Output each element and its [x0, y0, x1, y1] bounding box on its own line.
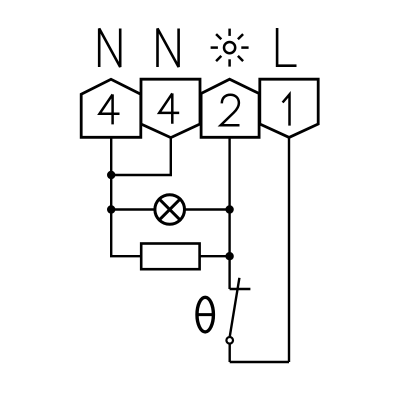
- wire: lamp row: [111, 208, 229, 210]
- switch S1 pivot circle: [226, 337, 233, 344]
- wire: pivot down: [228, 344, 230, 362]
- terminal 2 (apex-up pentagon): [201, 79, 259, 137]
- pin label 4 (terminal 4a): [100, 94, 120, 124]
- terminal 1 (apex-down pentagon): [260, 79, 318, 137]
- wire: terminal 4a down the left rail to resistor: [111, 137, 141, 256]
- resistor R1: [141, 244, 199, 270]
- label L (net L over terminal 1): [277, 28, 296, 66]
- terminal 4a (apex-up pentagon): [81, 79, 141, 137]
- switch S1 blade: [230, 278, 240, 337]
- terminal 4b (apex-down pentagon): [141, 79, 200, 137]
- wire: terminal 4b down then left to node A: [111, 138, 171, 175]
- pin label 4 (terminal 4b): [159, 93, 179, 123]
- pin label 2 (terminal 2): [221, 95, 240, 126]
- thermostat actuator theta symbol: [196, 297, 214, 332]
- wire: resistor to node D: [200, 255, 230, 257]
- wire: bottom run to the right: [230, 361, 289, 363]
- label N (net N over terminal 4 left): [99, 29, 120, 68]
- wire: right rail up to terminal 1: [288, 137, 290, 362]
- node C (junction dot): [225, 205, 233, 213]
- label N (net N over terminal 4 right): [158, 29, 179, 68]
- node A (junction dot): [107, 171, 115, 179]
- node B (junction dot): [107, 205, 115, 213]
- lamp E1 (circle with X): [155, 195, 185, 225]
- switch S1 fixed contact tick: [230, 288, 251, 290]
- lamp-load symbol (sun icon over terminal 2): [211, 29, 249, 67]
- pin label 1 (terminal 1): [283, 94, 290, 125]
- wire: terminal 2 down to switch: [228, 137, 230, 289]
- node D (junction dot): [225, 252, 233, 260]
